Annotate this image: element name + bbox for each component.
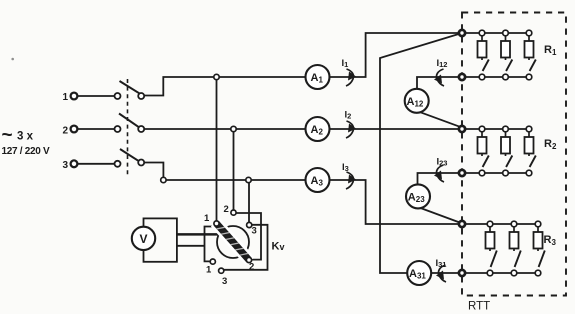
svg-text:3: 3 <box>222 276 227 287</box>
svg-text:2: 2 <box>63 126 69 137</box>
svg-text:RTT: RTT <box>468 301 490 313</box>
svg-text:127 / 220 V: 127 / 220 V <box>2 146 50 157</box>
svg-text:3: 3 <box>252 226 257 237</box>
svg-text:I23: I23 <box>437 157 448 168</box>
svg-text:1: 1 <box>206 265 212 276</box>
svg-text:I3: I3 <box>342 162 349 173</box>
svg-text:3: 3 <box>63 160 69 171</box>
svg-text:2: 2 <box>224 204 229 215</box>
svg-text:3 x: 3 x <box>17 131 34 143</box>
svg-text:I1: I1 <box>342 58 349 69</box>
svg-text:2: 2 <box>249 262 254 273</box>
svg-text:I31: I31 <box>436 258 447 269</box>
svg-text:I2: I2 <box>345 110 352 121</box>
svg-text:Kv: Kv <box>272 241 285 253</box>
svg-text:I12: I12 <box>437 58 448 69</box>
svg-text:~: ~ <box>2 125 13 146</box>
svg-text:V: V <box>140 232 148 246</box>
svg-text:1: 1 <box>204 213 210 224</box>
svg-text:1: 1 <box>63 92 69 103</box>
